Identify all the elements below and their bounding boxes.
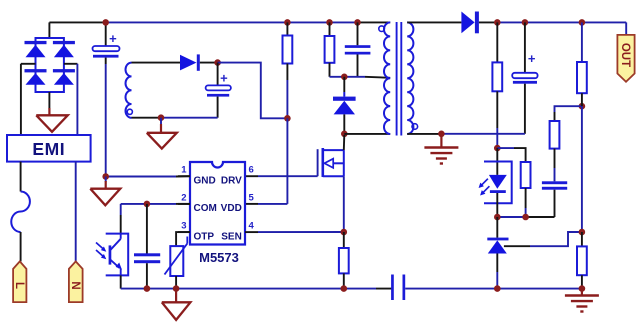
pin 6 DRV stub bbox=[249, 165, 254, 176]
wire Y-cap to secondary gnd bbox=[405, 288, 582, 290]
svg-text:SEN: SEN bbox=[221, 231, 242, 242]
capacitor C4 COM bbox=[134, 204, 160, 289]
thermistor RT1 bbox=[165, 237, 188, 289]
node dot rail/R2 bbox=[326, 19, 333, 26]
node dot aux gnd bbox=[158, 114, 165, 121]
wire COM net bbox=[121, 204, 190, 234]
svg-text:+: + bbox=[220, 71, 228, 86]
wire bridge left AC to EMI bbox=[20, 64, 22, 135]
node dot RT1/rail bbox=[173, 285, 180, 292]
wire bridge bottom stem bbox=[48, 92, 50, 115]
wire E2 lead bbox=[581, 289, 583, 296]
wire AC left stub bbox=[21, 63, 36, 65]
wire Q1 source bbox=[343, 176, 345, 232]
node dot rail/R1 bbox=[284, 19, 291, 26]
node dot R3/rail bbox=[341, 285, 348, 292]
wire OTP net bbox=[176, 232, 190, 246]
wire secondary gnd net bbox=[407, 133, 525, 135]
wire aux bottom bbox=[132, 117, 218, 119]
node dot sense bbox=[341, 229, 348, 236]
node dot COM/C4 bbox=[144, 201, 151, 208]
node dot divider/rail bbox=[579, 285, 586, 292]
node dot R5 bottom bbox=[522, 214, 529, 221]
wire bridge right AC to EMI bbox=[76, 64, 78, 135]
node dot aux bbox=[214, 59, 221, 66]
pin 1 GND stub bbox=[178, 165, 190, 177]
svg-text:OUT: OUT bbox=[619, 43, 631, 67]
node dot VDD bbox=[284, 115, 291, 122]
svg-text:+: + bbox=[528, 51, 536, 66]
optocoupler U2 light arrows bbox=[96, 243, 106, 260]
wire bridge top lead bbox=[48, 22, 50, 38]
diode D2 aux bbox=[180, 54, 200, 70]
wire GND pin1 net bbox=[106, 175, 190, 177]
node dot FB top bbox=[494, 145, 501, 152]
ground chassis triangle under bridge bbox=[36, 115, 68, 132]
svg-text:EMI: EMI bbox=[32, 139, 65, 159]
wire primary HV top rail (black segment from bridge) bbox=[49, 21, 103, 23]
op-amp U1 M5573 body bbox=[190, 162, 245, 245]
wire primary HV top rail (blue) bbox=[104, 21, 358, 23]
resistor R3 sense bbox=[339, 232, 349, 289]
wire Q1 drain bbox=[343, 135, 346, 150]
svg-text:OTP: OTP bbox=[194, 231, 215, 242]
node dot out/R6 bbox=[579, 19, 586, 26]
resistor R1 startup bbox=[283, 22, 293, 118]
optocoupler U2 LED bbox=[484, 148, 512, 217]
pin 3 OTP stub bbox=[178, 221, 190, 233]
wire E1 lead bbox=[440, 134, 442, 148]
svg-text:M5573: M5573 bbox=[199, 250, 239, 265]
svg-text:3: 3 bbox=[181, 221, 186, 232]
wire DRV gate bbox=[246, 149, 318, 176]
node dot rail/C1 bbox=[102, 19, 109, 26]
capacitor C6 output electrolytic bbox=[512, 22, 537, 133]
pin 4 SEN stub bbox=[245, 221, 258, 233]
node dot ref bbox=[579, 229, 586, 236]
transistor Q1 MOSFET bbox=[323, 148, 344, 177]
shunt regulator U3 TL431 bbox=[487, 217, 508, 289]
transformer T1 secondary winding bbox=[407, 22, 417, 134]
wire FB mid net bbox=[497, 216, 554, 218]
svg-text:COM: COM bbox=[194, 203, 217, 214]
svg-text:4: 4 bbox=[249, 221, 255, 232]
resistor R5 LED parallel bbox=[521, 162, 531, 217]
ground earth secondary bbox=[424, 148, 458, 164]
svg-text:1: 1 bbox=[181, 165, 187, 176]
ground chassis triangle primary bbox=[90, 189, 120, 206]
node dot comp top bbox=[579, 103, 586, 110]
wire primary bottom rail bbox=[121, 288, 393, 290]
wire D2 to C2 node bbox=[200, 62, 218, 64]
svg-text:2: 2 bbox=[181, 192, 186, 203]
wire U3 ref bbox=[504, 232, 582, 246]
resistor R4 preload bbox=[492, 22, 502, 148]
resistor R7 comp bbox=[550, 121, 560, 181]
resistor R2 clamp bbox=[325, 22, 335, 76]
inductor aux winding bbox=[126, 63, 133, 118]
svg-text:L: L bbox=[13, 282, 25, 289]
capacitor C2 aux electrolytic bbox=[206, 63, 231, 118]
svg-text:DRV: DRV bbox=[221, 175, 242, 186]
node dot out/C6 bbox=[522, 19, 529, 26]
optocoupler U2 LED arrows bbox=[479, 179, 490, 196]
node dot C4/rail bbox=[144, 285, 151, 292]
zener D3 clamp TVS bbox=[333, 77, 356, 134]
svg-text:6: 6 bbox=[249, 165, 254, 176]
node dot secondary gnd bbox=[438, 131, 445, 138]
diode D4 output bbox=[461, 12, 479, 34]
wire rail to transformer primary (black) bbox=[358, 21, 391, 23]
node dot U3/rail bbox=[494, 285, 501, 292]
wire secondary top lead bbox=[407, 21, 461, 23]
wire G4 lead bbox=[175, 289, 177, 303]
bridge rectifier BD1 (4 diodes) bbox=[25, 38, 75, 92]
wire D4 to out node bbox=[479, 21, 497, 23]
wire aux node to VDD rail bbox=[218, 63, 288, 119]
transformer T1 core bbox=[397, 22, 402, 136]
fuse F1 bbox=[11, 192, 30, 233]
wire aux top bbox=[132, 62, 181, 64]
node dot rail/C3 bbox=[354, 19, 361, 26]
terminal OUT bbox=[617, 35, 634, 82]
terminal L bbox=[13, 261, 27, 302]
wire EMI to fuse bbox=[20, 162, 22, 192]
wire FB to R5 bbox=[497, 148, 525, 162]
EMI filter block bbox=[7, 135, 91, 162]
wire U2 emitter to rail bbox=[120, 275, 122, 288]
wire VDD vertical to pin5 bbox=[246, 118, 287, 204]
wire aux gnd lead bbox=[160, 118, 162, 133]
transformer T1 primary winding bbox=[379, 22, 390, 134]
U1 part number label bbox=[199, 250, 239, 265]
ground chassis triangle aux bbox=[147, 133, 177, 149]
svg-text:GND: GND bbox=[194, 175, 216, 186]
terminal N bbox=[69, 261, 83, 302]
wire divider mid bbox=[581, 106, 583, 232]
node dot drain bbox=[341, 131, 348, 138]
node dot GND bbox=[102, 173, 109, 180]
wire drain to primary bbox=[344, 133, 390, 135]
wire clamp node bbox=[330, 77, 391, 78]
node dot out/R4 bbox=[494, 19, 501, 26]
wire EMI to N terminal bbox=[75, 162, 77, 262]
optocoupler U2 phototransistor bbox=[106, 234, 129, 276]
wire secondary output rail bbox=[497, 22, 626, 35]
node dot LED cathode bbox=[494, 214, 501, 221]
capacitor C5 Y-cap bbox=[391, 275, 405, 301]
svg-text:VDD: VDD bbox=[221, 203, 242, 214]
resistor R8 divider bottom bbox=[577, 232, 587, 289]
node dot clamp bbox=[341, 74, 348, 81]
capacitor C1 bulk electrolytic bbox=[93, 22, 120, 176]
svg-text:+: + bbox=[109, 31, 117, 46]
svg-text:5: 5 bbox=[249, 192, 255, 203]
wire SEN net bbox=[258, 231, 344, 233]
resistor R6 divider top bbox=[577, 22, 587, 106]
wire GND lead bbox=[105, 177, 107, 189]
capacitor C3 clamp bbox=[345, 22, 371, 76]
capacitor C7 comp bbox=[542, 181, 567, 217]
U1 pin labels bbox=[194, 175, 243, 242]
ground chassis triangle bottom bbox=[162, 302, 191, 320]
pin 5 VDD stub bbox=[249, 192, 255, 203]
wire comp branch bbox=[555, 106, 582, 121]
pin 2 COM stub bbox=[178, 192, 190, 204]
ground earth output bbox=[565, 296, 599, 312]
wire fuse to L terminal bbox=[20, 232, 22, 261]
wire AC right stub bbox=[64, 63, 78, 65]
svg-text:N: N bbox=[69, 281, 81, 289]
